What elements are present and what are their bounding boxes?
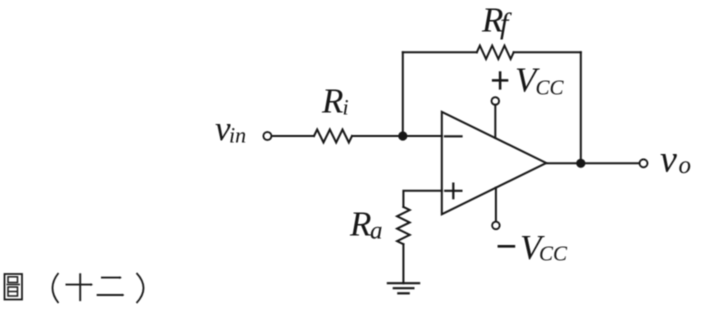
glyph ten bbox=[66, 273, 94, 301]
label Ri bbox=[321, 82, 349, 121]
label Rf bbox=[481, 0, 512, 40]
wire bbox=[402, 52, 404, 136]
wire bbox=[402, 244, 404, 283]
label vin bbox=[215, 109, 246, 148]
svg-text:CC: CC bbox=[536, 75, 565, 99]
svg-text:a: a bbox=[370, 217, 383, 244]
glyph two bbox=[97, 276, 125, 296]
pin minus bbox=[445, 135, 462, 137]
node vo terminal bbox=[640, 159, 648, 167]
svg-text:in: in bbox=[229, 123, 246, 148]
node output junction bbox=[576, 159, 585, 168]
wire bbox=[403, 191, 441, 207]
resistor Ri bbox=[314, 130, 352, 143]
wire bbox=[403, 51, 477, 53]
label -Vcc bbox=[498, 228, 568, 267]
svg-text:i: i bbox=[343, 95, 349, 120]
wire bbox=[272, 135, 314, 137]
resistor Rf bbox=[477, 46, 514, 59]
wire bbox=[580, 52, 582, 163]
svg-text:o: o bbox=[679, 152, 692, 179]
op-amp U1 bbox=[442, 112, 546, 215]
svg-text:v: v bbox=[660, 139, 677, 181]
wire bbox=[546, 162, 639, 164]
node vin terminal bbox=[263, 132, 271, 140]
wire bbox=[352, 135, 442, 137]
wire bbox=[494, 105, 496, 138]
caption figure 12 bbox=[5, 273, 144, 303]
pin plus bbox=[445, 190, 461, 192]
label vo bbox=[660, 139, 691, 181]
node -Vcc terminal bbox=[492, 222, 500, 230]
label Ra bbox=[349, 204, 383, 244]
glyph close paren bbox=[137, 273, 144, 303]
glyph open paren bbox=[53, 273, 59, 303]
wire bbox=[495, 188, 497, 222]
svg-text:CC: CC bbox=[539, 241, 568, 265]
label +Vcc bbox=[492, 61, 565, 100]
svg-text:R: R bbox=[349, 204, 371, 243]
wire bbox=[514, 51, 581, 53]
node A junction bbox=[398, 131, 407, 140]
svg-text:R: R bbox=[321, 82, 343, 121]
glyph tu (picture) bbox=[5, 274, 23, 300]
node +Vcc terminal bbox=[492, 97, 500, 105]
resistor Ra bbox=[397, 207, 410, 244]
ground bbox=[388, 282, 419, 284]
